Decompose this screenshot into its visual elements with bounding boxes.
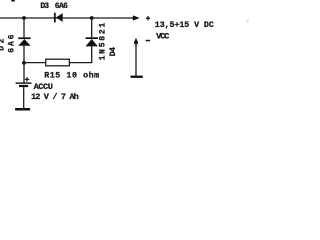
wire: R15 to D4 anode corner xyxy=(69,46,91,62)
svg-text:VCC: VCC xyxy=(156,32,169,42)
svg-text:12 V / 7 Ah: 12 V / 7 Ah xyxy=(31,92,79,102)
wire: D2 anode down to battery node xyxy=(23,46,25,83)
svg-text:6A6: 6A6 xyxy=(55,2,68,11)
svg-text:ACCU: ACCU xyxy=(34,82,53,92)
terminal bar: battery negative connection xyxy=(15,108,30,111)
svg-text:1N5821: 1N5821 xyxy=(98,23,107,61)
wire: battery negative lead xyxy=(23,87,25,108)
diode D3 6A6 (horizontal, cathode left) xyxy=(54,13,63,23)
label - (output polarity) xyxy=(146,40,151,42)
wire: D4 cathode to top rail xyxy=(91,18,93,37)
junction: D4 branch on top rail xyxy=(90,16,94,20)
svg-text:13,5+15 V DC: 13,5+15 V DC xyxy=(155,21,214,30)
wire: top rail down to D2 cathode xyxy=(23,18,25,38)
wire: minus output stub xyxy=(135,43,137,76)
label + (battery polarity) xyxy=(25,77,29,81)
svg-text:D4: D4 xyxy=(109,47,118,56)
wire: top positive rail xyxy=(0,17,135,19)
diode D4 1N5821 (vertical, cathode up) xyxy=(86,37,98,46)
diode D2 6A6 (vertical, cathode up) xyxy=(18,37,30,45)
label + (output polarity) xyxy=(146,16,150,20)
resistor R15 (box) xyxy=(46,59,70,66)
terminal arrow: minus output xyxy=(134,38,139,45)
junction: battery branch on top rail xyxy=(22,16,26,20)
wire: battery node to R15 xyxy=(24,62,46,64)
svg-text:R15 10 ohm: R15 10 ohm xyxy=(44,70,99,80)
svg-text:D3: D3 xyxy=(40,2,49,11)
cropped text fragment at top edge xyxy=(11,0,15,2)
terminal bar: minus output connection xyxy=(131,76,143,78)
junction: R15 branch at battery plus node xyxy=(22,61,26,65)
battery ACCU plates xyxy=(16,82,32,87)
svg-text:6A6: 6A6 xyxy=(7,34,16,52)
terminal arrow: + output xyxy=(132,15,139,20)
faint cropped mark at right edge xyxy=(247,19,249,22)
